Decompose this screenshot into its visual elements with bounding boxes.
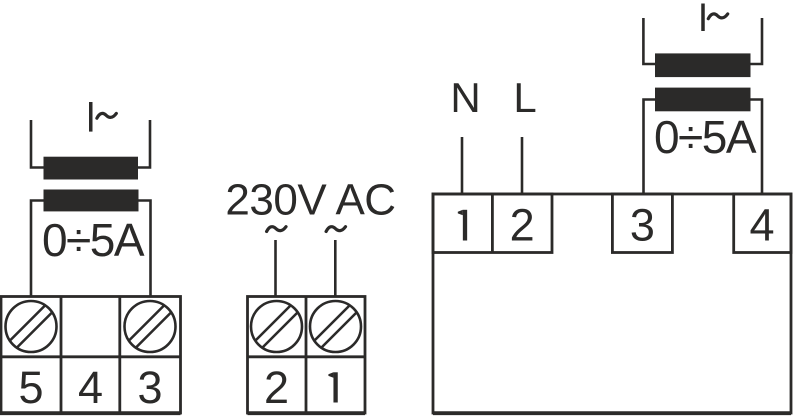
svg-text:0÷5A: 0÷5A xyxy=(42,214,145,266)
svg-text:4: 4 xyxy=(78,362,103,413)
svg-text:3: 3 xyxy=(137,362,162,413)
svg-text:N: N xyxy=(450,74,480,121)
svg-text:2: 2 xyxy=(510,200,535,251)
svg-text:230V AC: 230V AC xyxy=(225,176,395,225)
svg-text:2: 2 xyxy=(264,362,289,413)
svg-text:0÷5A: 0÷5A xyxy=(654,111,757,163)
svg-text:3: 3 xyxy=(630,200,655,251)
svg-text:L: L xyxy=(513,74,536,121)
svg-text:5: 5 xyxy=(18,362,43,413)
svg-text:4: 4 xyxy=(749,200,774,251)
